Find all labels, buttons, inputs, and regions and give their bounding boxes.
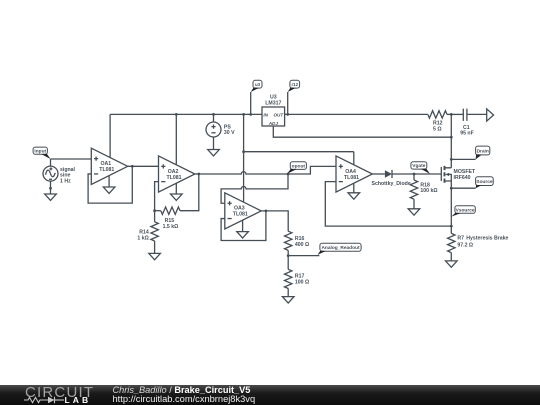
svg-text:Vsource: Vsource xyxy=(456,207,475,213)
svg-text:Vgate: Vgate xyxy=(412,163,425,169)
svg-text:30 V: 30 V xyxy=(224,130,235,136)
svg-text:95 nF: 95 nF xyxy=(460,131,474,137)
svg-text:Schottky_Diode: Schottky_Diode xyxy=(372,181,411,187)
svg-text:R7: R7 xyxy=(457,236,464,242)
svg-text:Source: Source xyxy=(476,179,493,185)
svg-text:opout: opout xyxy=(292,163,306,169)
svg-text:u3: u3 xyxy=(255,82,261,87)
svg-text:1 kΩ: 1 kΩ xyxy=(137,236,148,242)
svg-text:400 Ω: 400 Ω xyxy=(295,242,309,248)
svg-text:TL081: TL081 xyxy=(233,212,248,218)
svg-text:input: input xyxy=(34,149,46,155)
svg-text:TL081: TL081 xyxy=(167,175,182,181)
svg-text:TL081: TL081 xyxy=(99,167,114,173)
svg-text:100 kΩ: 100 kΩ xyxy=(420,188,437,194)
svg-text:r12: r12 xyxy=(291,82,298,87)
svg-text:ADJ: ADJ xyxy=(268,121,279,126)
svg-text:1.5 kΩ: 1.5 kΩ xyxy=(163,224,179,230)
svg-text:OUT: OUT xyxy=(273,112,284,117)
svg-text:1 Hz: 1 Hz xyxy=(60,179,71,185)
svg-text:Drain: Drain xyxy=(477,148,489,154)
svg-text:97.2 Ω: 97.2 Ω xyxy=(457,243,473,249)
svg-text:LM317: LM317 xyxy=(265,100,281,106)
svg-text:5 Ω: 5 Ω xyxy=(433,127,442,133)
svg-text:IRF640: IRF640 xyxy=(454,175,471,181)
svg-text:TL081: TL081 xyxy=(344,175,359,181)
svg-text:100 Ω: 100 Ω xyxy=(295,280,309,286)
svg-text:Analog_Readout: Analog_Readout xyxy=(321,245,360,251)
svg-text:Hysteresis Brake: Hysteresis Brake xyxy=(466,236,508,242)
svg-text:IN: IN xyxy=(263,112,268,117)
